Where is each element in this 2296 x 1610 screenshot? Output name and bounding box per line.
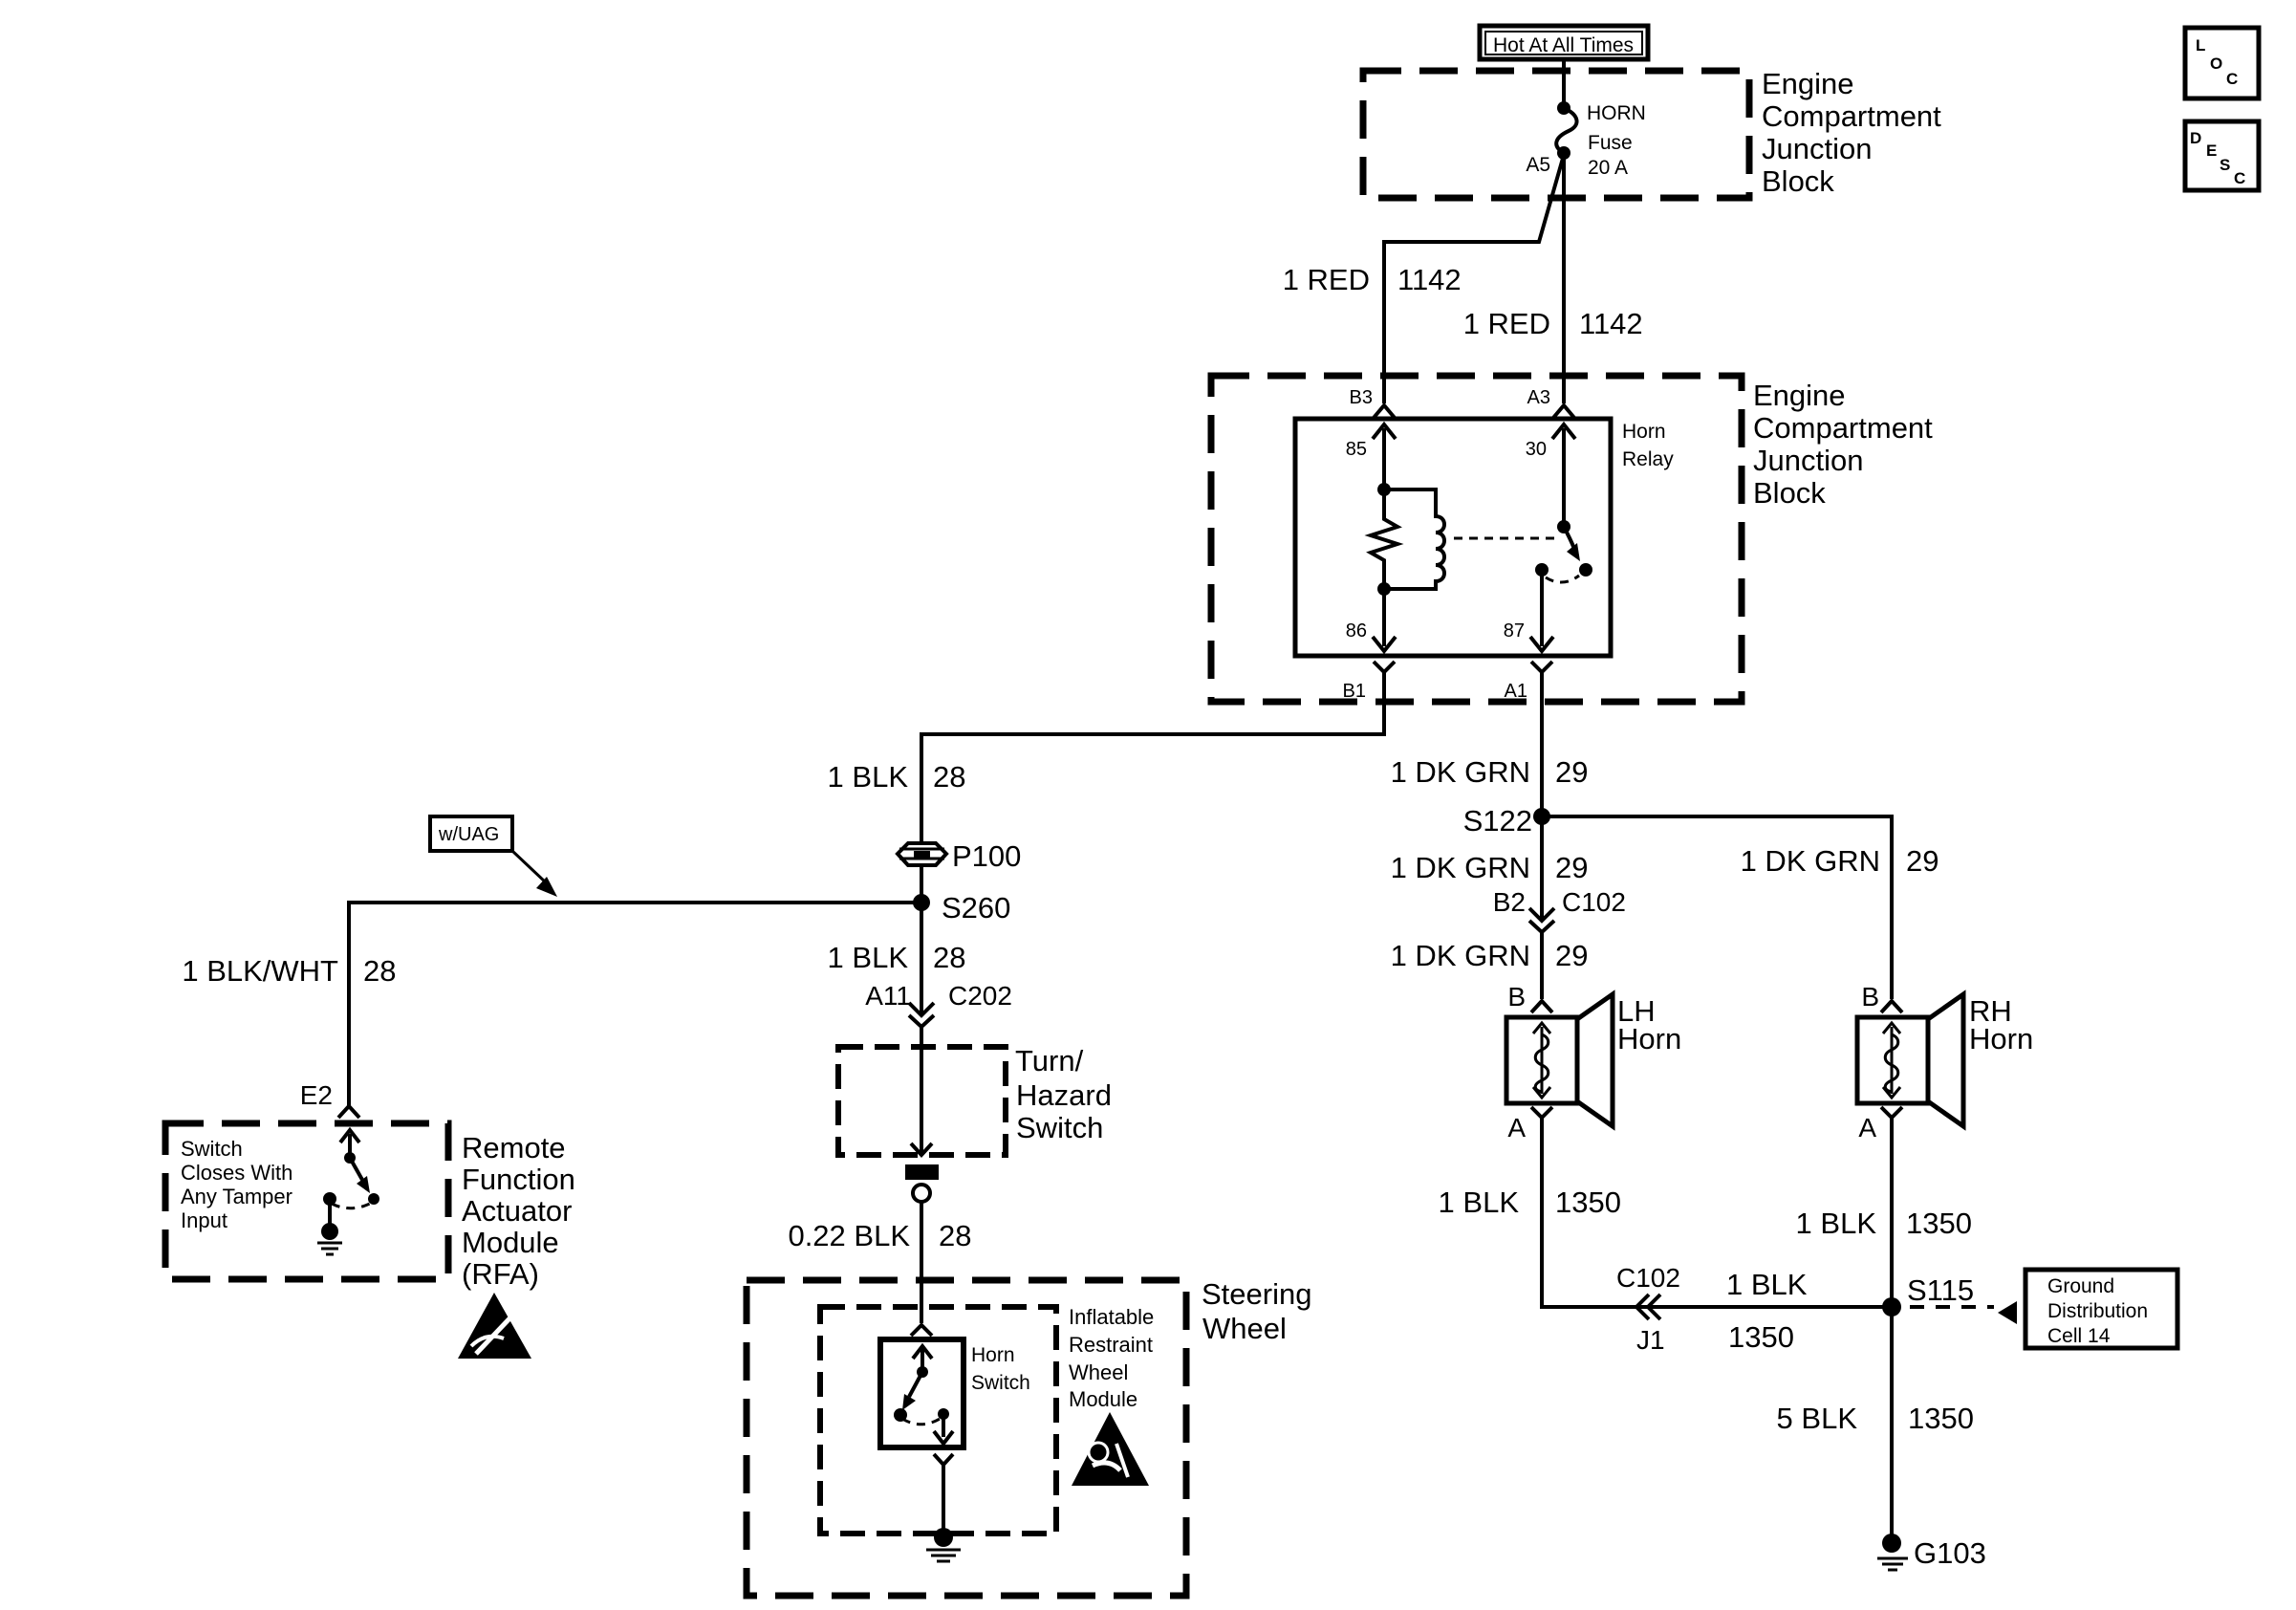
dashed box: Turn/Hazard Switch	[838, 1047, 1006, 1155]
svg-text:Distribution: Distribution	[2047, 1300, 2148, 1322]
relay coil bottom node	[1377, 582, 1391, 596]
svg-text:Compartment: Compartment	[1762, 99, 1941, 133]
wire label: 1 BLK 28 (below S260)	[828, 941, 966, 974]
svg-text:1350: 1350	[1908, 1402, 1974, 1435]
wire: RH horn to S115	[1890, 1118, 1894, 1307]
svg-text:Cell 14: Cell 14	[2047, 1325, 2111, 1347]
horn switch dashed arc	[902, 1418, 942, 1425]
svg-text:E2: E2	[300, 1080, 333, 1110]
wire: S122 right branch to RH horn	[1542, 816, 1892, 999]
relay resistor	[1371, 490, 1397, 589]
svg-text:G103: G103	[1914, 1536, 1986, 1570]
pin A3 chevron	[1553, 405, 1574, 418]
relay pin 30 arrow	[1526, 424, 1575, 527]
wire: fuse A5 straight down to A3	[1562, 153, 1566, 403]
svg-text:S260: S260	[942, 891, 1010, 925]
wire: LH horn to S115	[1542, 1118, 1892, 1307]
svg-text:Module: Module	[1069, 1387, 1137, 1411]
svg-text:28: 28	[363, 954, 396, 988]
wire label: 1 BLK 1350 (LH)	[1439, 1186, 1621, 1219]
wire label: 1 BLK/WHT 28	[182, 954, 396, 988]
relay switch arm arrow	[1564, 527, 1592, 577]
relay pin 87 node	[1535, 563, 1549, 577]
svg-text:87: 87	[1504, 620, 1525, 642]
svg-text:Fuse: Fuse	[1588, 132, 1633, 154]
svg-text:A11: A11	[865, 981, 911, 1011]
svg-text:B2: B2	[1493, 887, 1526, 917]
svg-text:1 DK GRN: 1 DK GRN	[1391, 939, 1530, 972]
svg-text:P100: P100	[952, 839, 1021, 873]
svg-text:0.22 BLK: 0.22 BLK	[788, 1219, 910, 1252]
svg-text:Steering: Steering	[1202, 1277, 1311, 1311]
svg-text:C202: C202	[948, 981, 1012, 1011]
splice S260	[913, 891, 1010, 925]
svg-text:Block: Block	[1762, 164, 1834, 198]
label: Turn/Hazard Switch	[1015, 1044, 1112, 1144]
svg-text:O: O	[2210, 54, 2222, 73]
reference box LOC	[2185, 28, 2259, 98]
wire: S260 down to C202	[920, 903, 923, 1014]
svg-text:Hazard: Hazard	[1016, 1078, 1112, 1112]
svg-text:Switch: Switch	[181, 1137, 243, 1161]
arrow into Turn/Hazard Switch bottom	[911, 1143, 932, 1155]
wire: C202 into Turn/Hazard switch	[920, 1027, 923, 1152]
dashed box: Engine Compartment Junction Block (relay block)	[1211, 376, 1742, 702]
wire label: 0.22 BLK 28	[788, 1219, 971, 1252]
LH horn pin A chevron	[1531, 1107, 1552, 1118]
svg-text:Compartment: Compartment	[1753, 411, 1933, 445]
svg-text:28: 28	[939, 1219, 971, 1252]
svg-text:A3: A3	[1527, 387, 1550, 408]
svg-text:Horn: Horn	[1622, 421, 1666, 443]
svg-text:Switch: Switch	[1016, 1111, 1103, 1144]
reference box: Ground Distribution Cell 14	[2025, 1270, 2177, 1348]
svg-text:Wheel: Wheel	[1069, 1360, 1128, 1384]
svg-text:Restraint: Restraint	[1069, 1333, 1153, 1357]
splice S115	[1882, 1273, 1974, 1316]
svg-text:29: 29	[1555, 755, 1588, 789]
horn switch output chevron	[934, 1454, 953, 1465]
svg-text:1 DK GRN: 1 DK GRN	[1391, 755, 1530, 789]
label: Engine Compartment Junction Block (fuse block)	[1762, 67, 1941, 198]
svg-text:29: 29	[1555, 851, 1588, 884]
svg-text:1350: 1350	[1555, 1186, 1621, 1219]
horn switch up arrow	[913, 1346, 932, 1372]
wire: P100 to S260	[920, 865, 923, 903]
horn switch right contact node	[938, 1408, 949, 1420]
dashed box: Engine Compartment Junction Block (fuse block)	[1363, 71, 1749, 198]
svg-text:1142: 1142	[1579, 307, 1643, 340]
svg-text:1142: 1142	[1397, 263, 1462, 296]
fuse: HORN Fuse 20 A	[1556, 101, 1646, 179]
svg-text:B3: B3	[1350, 387, 1373, 408]
dashed reference arrow to Ground Distribution	[1910, 1301, 2017, 1324]
svg-text:Inflatable: Inflatable	[1069, 1305, 1154, 1329]
relay pin 86 arrow	[1346, 589, 1396, 651]
RFA switch arm arrow	[350, 1158, 370, 1193]
svg-text:1 BLK: 1 BLK	[1439, 1186, 1520, 1219]
svg-text:1 DK GRN: 1 DK GRN	[1391, 851, 1530, 884]
relay pin 87 arrow	[1504, 570, 1553, 651]
wire label: 1 BLK 1350 (RH)	[1796, 1207, 1972, 1240]
svg-text:Horn: Horn	[971, 1344, 1015, 1366]
svg-text:29: 29	[1555, 939, 1588, 972]
horn switch input chevron	[911, 1325, 932, 1336]
svg-text:85: 85	[1346, 439, 1367, 460]
label: Steering Wheel	[1202, 1277, 1311, 1345]
clockspring grommet below Turn/Hazard switch	[905, 1164, 939, 1202]
svg-text:Module: Module	[462, 1226, 559, 1259]
svg-text:C: C	[2234, 169, 2245, 187]
svg-text:Engine: Engine	[1753, 379, 1846, 412]
svg-text:Switch: Switch	[971, 1372, 1030, 1394]
relay coil	[1384, 490, 1444, 589]
svg-text:1 RED: 1 RED	[1463, 307, 1550, 340]
wire: C102 to LH horn	[1540, 932, 1544, 999]
svg-text:S115: S115	[1907, 1273, 1974, 1307]
relay switch common node	[1557, 520, 1570, 533]
label: Remote Function Actuator Module (RFA)	[462, 1131, 575, 1291]
label: Horn Relay	[1622, 421, 1674, 470]
LH horn pin B chevron	[1531, 1001, 1552, 1012]
svg-text:A: A	[1858, 1113, 1876, 1142]
wire label: 1 RED 1142 (left)	[1283, 263, 1462, 296]
wire label: 1 RED 1142 (right)	[1463, 307, 1643, 340]
svg-text:Horn: Horn	[1969, 1022, 2033, 1055]
ESD warning triangle	[458, 1293, 531, 1359]
svg-text:S: S	[2220, 156, 2230, 174]
relay pin 85 arrow	[1346, 424, 1396, 490]
svg-text:(RFA): (RFA)	[462, 1257, 539, 1291]
wire: B1 down and left to center column	[921, 672, 1384, 844]
wire: fuse A5 to B3 (diagonal, horizontal, down)	[1384, 155, 1564, 403]
svg-text:Hot At All Times: Hot At All Times	[1493, 34, 1634, 56]
svg-text:Actuator: Actuator	[462, 1194, 572, 1228]
reference box DESC	[2185, 121, 2259, 190]
dashed box: Remote Function Actuator Module	[165, 1123, 448, 1279]
svg-text:Closes With: Closes With	[181, 1161, 292, 1185]
svg-text:86: 86	[1346, 620, 1367, 642]
label: Engine Compartment Junction Block (relay block)	[1753, 379, 1933, 510]
ground (RFA)	[317, 1223, 342, 1254]
switch SW: Horn Switch box	[880, 1339, 964, 1447]
svg-text:Function: Function	[462, 1163, 575, 1196]
wire: S260 left branch to E2 column	[349, 903, 921, 1106]
svg-text:Engine: Engine	[1762, 67, 1854, 100]
note text: Switch Closes With Any Tamper Input	[181, 1137, 292, 1232]
relay U: Horn Relay box	[1295, 419, 1611, 656]
wire label: 1 DK GRN 29 (RH)	[1741, 844, 1939, 878]
svg-text:L: L	[2196, 36, 2205, 54]
svg-text:Junction: Junction	[1762, 132, 1872, 165]
svg-text:Input: Input	[181, 1208, 227, 1232]
pin A1 chevron	[1531, 662, 1552, 672]
svg-text:5 BLK: 5 BLK	[1777, 1402, 1858, 1435]
connector C102 pin B2 labels	[1493, 887, 1626, 917]
svg-text:29: 29	[1906, 844, 1939, 878]
label: Inflatable Restraint Wheel Module	[1069, 1305, 1154, 1411]
svg-text:Horn: Horn	[1617, 1022, 1681, 1055]
svg-text:Wheel: Wheel	[1202, 1312, 1287, 1345]
wire label: 1 DK GRN 29 (above S122)	[1391, 755, 1589, 789]
ground G103	[1877, 1534, 1986, 1570]
horn switch arm arrow	[902, 1372, 922, 1410]
svg-text:1350: 1350	[1728, 1320, 1794, 1354]
wire label: 1 BLK 28 (above P100)	[828, 760, 966, 794]
svg-text:B: B	[1861, 982, 1879, 1012]
svg-text:1 RED: 1 RED	[1283, 263, 1370, 296]
svg-text:A1: A1	[1505, 681, 1527, 702]
svg-text:Turn/: Turn/	[1015, 1044, 1084, 1077]
dashed box: Steering Wheel	[747, 1280, 1186, 1596]
relay dashed actuation line	[1454, 537, 1559, 540]
relay switch dashed arc	[1546, 576, 1579, 582]
svg-text:Any Tamper: Any Tamper	[181, 1185, 292, 1208]
connector C102 J1 double chevron (horizontal)	[1636, 1295, 1660, 1319]
RFA switch right contact node	[368, 1193, 379, 1205]
svg-text:1 BLK/WHT: 1 BLK/WHT	[182, 954, 338, 988]
svg-text:w/UAG: w/UAG	[438, 824, 499, 845]
grommet P100	[898, 839, 1021, 873]
svg-text:Remote: Remote	[462, 1131, 566, 1164]
pin E2 chevron	[338, 1106, 359, 1118]
pin B3 chevron	[1374, 405, 1395, 418]
ground (steering wheel)	[926, 1528, 961, 1561]
svg-text:28: 28	[933, 941, 965, 974]
callout box w/UAG	[430, 816, 512, 851]
wire label: 5 BLK 1350	[1777, 1402, 1974, 1435]
wire: A1 down to S122	[1540, 672, 1544, 816]
svg-text:A: A	[1507, 1113, 1526, 1142]
svg-text:S122: S122	[1463, 804, 1532, 838]
horn switch left contact node	[894, 1408, 907, 1422]
node label box: Hot At All Times	[1480, 26, 1648, 59]
svg-text:Junction: Junction	[1753, 444, 1863, 477]
horn switch output arrow	[934, 1414, 953, 1444]
wire label: 1 DK GRN 29 (below S122)	[1391, 851, 1589, 884]
svg-text:C: C	[2226, 70, 2238, 88]
wire label: 1 BLK 1350 (horizontal run)	[1726, 1268, 1808, 1354]
RFA switch dashed arc	[332, 1203, 372, 1208]
connector C102 J1 labels	[1616, 1263, 1680, 1355]
LH Horn	[1506, 994, 1681, 1126]
svg-text:28: 28	[933, 760, 965, 794]
RFA switch up arrow	[340, 1130, 359, 1158]
RFA switch left contact node	[323, 1192, 336, 1206]
wire: Hot At All Times to fuse	[1562, 57, 1566, 108]
RH horn pin A chevron	[1881, 1107, 1902, 1118]
connector C202 pin A11 labels	[865, 981, 1012, 1011]
svg-text:C102: C102	[1562, 887, 1626, 917]
svg-text:1 DK GRN: 1 DK GRN	[1741, 844, 1880, 878]
wire label: 1 DK GRN 29 (above LH horn)	[1391, 939, 1589, 972]
svg-text:1 BLK: 1 BLK	[828, 760, 909, 794]
label: Horn Switch	[971, 1344, 1030, 1394]
airbag warning triangle	[1072, 1412, 1149, 1486]
callout arrow w/UAG	[512, 851, 557, 897]
splice S122	[1463, 804, 1550, 838]
svg-text:1 BLK: 1 BLK	[828, 941, 909, 974]
pin B1 chevron	[1374, 662, 1395, 672]
svg-text:D: D	[2190, 129, 2201, 147]
relay coil top node	[1377, 483, 1391, 496]
svg-text:HORN: HORN	[1587, 102, 1646, 124]
svg-text:20 A: 20 A	[1588, 157, 1628, 179]
svg-text:Block: Block	[1753, 476, 1826, 510]
svg-text:Ground: Ground	[2047, 1275, 2114, 1297]
dashed box: Inflatable Restraint Wheel Module	[820, 1307, 1056, 1534]
svg-text:1 BLK: 1 BLK	[1796, 1207, 1877, 1240]
wire: horn switch to ground	[942, 1465, 945, 1530]
svg-text:1350: 1350	[1906, 1207, 1972, 1240]
horn switch pivot node	[917, 1366, 928, 1378]
svg-text:A5: A5	[1526, 154, 1550, 176]
RFA switch pivot node	[344, 1152, 356, 1164]
connector C202 double chevron	[909, 1003, 934, 1027]
wire: S122 down to C102	[1540, 816, 1544, 920]
wire: S115 down to G103	[1890, 1307, 1894, 1535]
RH Horn	[1857, 994, 2033, 1126]
svg-text:1 BLK: 1 BLK	[1726, 1268, 1808, 1301]
connector C102 double chevron	[1529, 908, 1554, 932]
wire: RFA contact to ground	[328, 1199, 332, 1224]
svg-text:J1: J1	[1636, 1325, 1665, 1355]
svg-text:Relay: Relay	[1622, 448, 1674, 470]
svg-text:C102: C102	[1616, 1263, 1680, 1293]
svg-text:E: E	[2206, 141, 2217, 160]
RH horn pin B chevron	[1881, 1001, 1902, 1012]
wire: grommet down to steering wheel	[920, 1202, 923, 1323]
svg-text:B1: B1	[1343, 681, 1366, 702]
svg-text:B: B	[1507, 982, 1526, 1012]
svg-text:30: 30	[1526, 439, 1547, 460]
